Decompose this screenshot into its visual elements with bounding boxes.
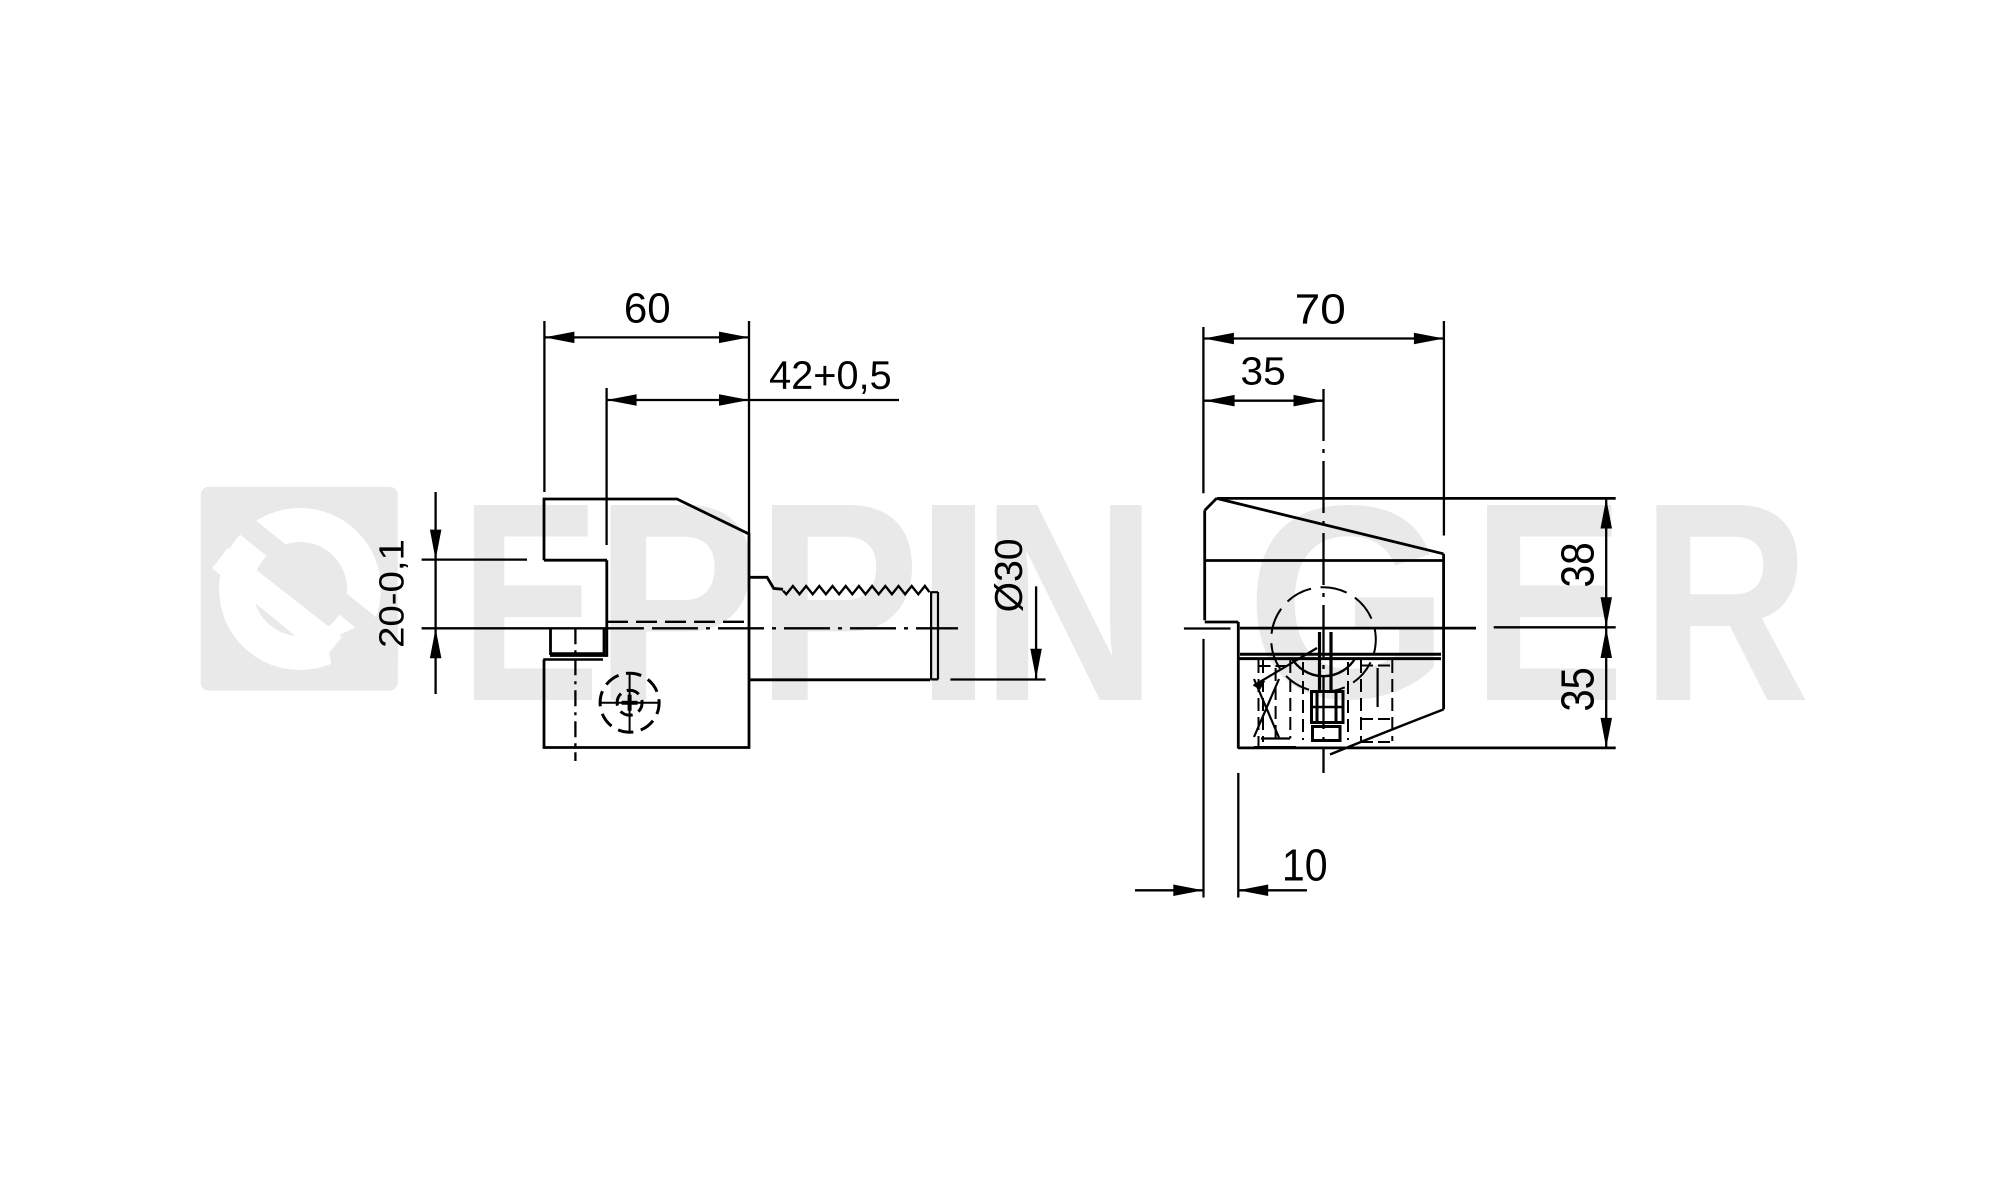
right view left face lower and 10-dim extension <box>1202 639 1204 898</box>
dim 38 text <box>1561 567 1594 586</box>
left view relief step edge <box>543 658 603 661</box>
dim 38 line <box>1605 499 1607 628</box>
hidden bore left bottom <box>1261 737 1290 739</box>
shank thread zigzag <box>783 586 930 594</box>
dim 70 extension line left <box>1202 327 1204 493</box>
hidden bore right step <box>1361 718 1392 720</box>
wedge cross diagonal 2 <box>1254 679 1279 737</box>
hidden bore right top <box>1361 665 1392 667</box>
wedge cross diagonal 1 <box>1254 679 1279 738</box>
hidden bore right solid wall <box>1376 668 1378 707</box>
hidden bore left inner <box>1275 668 1277 738</box>
right view top-left chamfer <box>1205 498 1217 510</box>
right view slot bottom line <box>1240 627 1476 630</box>
dim diameter 30 leader <box>1035 586 1037 678</box>
dim 10 extension line right <box>1237 773 1239 898</box>
right view band line upper <box>1240 653 1441 656</box>
dim 60 extension line right <box>748 321 750 535</box>
left view crosshair center cross <box>622 701 638 705</box>
dim 35 top line <box>1204 400 1324 402</box>
left view horizontal center line solid part <box>422 627 644 629</box>
right view band line lower <box>1238 657 1441 660</box>
dim 20-0,1 line <box>434 492 436 694</box>
dim 10 line left <box>1135 889 1203 891</box>
dim 60 line <box>544 336 749 338</box>
shank top edge <box>749 577 783 589</box>
clamp bolt nut inner right <box>1335 692 1338 722</box>
dim 35 right line <box>1605 628 1607 748</box>
left view horizontal center line <box>652 627 958 629</box>
dim 35 right text <box>1561 691 1594 710</box>
hidden bore right wall a <box>1360 660 1362 741</box>
clamp bolt nut mid bar <box>1312 706 1344 709</box>
right view back top edge <box>1217 497 1616 500</box>
hidden bore left right wall <box>1289 660 1291 739</box>
left view slot top edge <box>544 559 607 562</box>
right view right edge <box>1442 554 1445 710</box>
hidden bore left top <box>1259 665 1291 667</box>
hidden bore left lower edge <box>1254 746 1296 748</box>
hidden bore right bottom <box>1361 741 1392 743</box>
dim 10 line right <box>1238 889 1307 891</box>
dim 20-0,1 extension line upper <box>422 558 527 560</box>
right view bottom-right relief curve <box>1330 709 1444 754</box>
dim 42+0,5 extension line <box>605 388 607 545</box>
hidden bore left wall b <box>1262 660 1264 742</box>
dim 42+0,5 line <box>607 399 899 401</box>
right view lip step <box>1205 621 1239 624</box>
dim 60 text <box>626 293 645 323</box>
right view top slope <box>1217 498 1444 553</box>
right view left face upper <box>1203 510 1206 620</box>
shank bottom edge <box>749 678 930 681</box>
dim 35 top text <box>1242 357 1261 385</box>
right view slot top face line <box>1205 559 1444 562</box>
right view slot line left stub <box>1184 627 1231 629</box>
left view clamp nub <box>551 628 605 653</box>
left view crosshair horizontal line <box>600 702 659 704</box>
clamp bolt nut block <box>1312 692 1344 723</box>
dim 20-0,1 text <box>379 629 404 646</box>
dim 60 extension line left <box>543 321 545 492</box>
clamp bolt nut inner left <box>1316 692 1319 722</box>
dim 42+0,5 text <box>770 361 790 388</box>
right view bottom edge <box>1238 747 1616 750</box>
right view vertical center line <box>1322 389 1324 773</box>
hidden bore right wall b <box>1391 660 1393 741</box>
dim 70 line <box>1204 337 1444 339</box>
dim diameter 30 text <box>994 583 1023 611</box>
wedge leader diagonal <box>1254 648 1318 686</box>
left view body outline <box>544 499 749 748</box>
dim 10 text <box>1285 849 1303 880</box>
clamp bolt shank right <box>1329 632 1332 692</box>
right view wedge arc <box>1292 658 1356 676</box>
hidden central bore left wall <box>1302 662 1304 740</box>
watermark text EPPINGER <box>474 505 592 700</box>
right view lip inner edge <box>1237 622 1240 749</box>
left view bolt position crosshair inner circle <box>617 690 642 715</box>
left view bolt position crosshair outer circle <box>600 673 659 732</box>
left view nub lower edge <box>550 655 608 657</box>
clamp bolt shank left <box>1318 632 1321 692</box>
shank end cap <box>931 591 938 679</box>
watermark logo tile <box>201 487 398 691</box>
dim 70 extension line right <box>1443 321 1445 536</box>
dim diameter 30 extension line <box>950 678 1045 680</box>
right view clamp bore dashed circle <box>1271 587 1376 692</box>
right view slot bottom extension for dims <box>1494 626 1616 628</box>
left view slot inner face <box>605 560 608 657</box>
hidden bore left wall a <box>1258 660 1260 748</box>
left view crosshair vertical line <box>629 673 631 732</box>
dim 70 text <box>1297 294 1318 323</box>
left view bolt axis center line <box>574 628 576 761</box>
hidden central bore right wall <box>1347 662 1349 740</box>
clamp bolt tip rect <box>1313 727 1341 741</box>
left view slot hidden bottom edge <box>607 621 749 623</box>
